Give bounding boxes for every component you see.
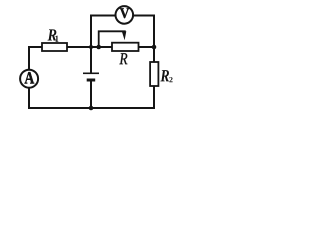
- wire: right rail vertical: [153, 47, 155, 108]
- label R2 subscript 2: [169, 77, 172, 82]
- wire: battery branch upper: [90, 47, 92, 73]
- wire: voltmeter right drop: [153, 16, 155, 48]
- wire: main horizontal row: [29, 46, 154, 48]
- battery short plate: [87, 79, 96, 82]
- rheostat R (box): [112, 43, 139, 51]
- wire: voltmeter top horizontal: [91, 15, 154, 17]
- resistor R2: [150, 62, 158, 86]
- label R1 subscript 1: [55, 36, 58, 42]
- label R1: [47, 29, 56, 40]
- rheostat slider arm: [99, 31, 125, 47]
- wire: battery branch lower: [90, 81, 92, 108]
- wire: voltmeter left drop: [90, 16, 92, 48]
- label R2: [160, 70, 169, 81]
- wire: bottom horizontal: [29, 107, 154, 109]
- resistor R1: [42, 43, 67, 51]
- node: battery bottom junction: [89, 106, 94, 111]
- battery long plate: [83, 72, 99, 74]
- node: battery/main-wire junction: [89, 45, 93, 49]
- ammeter A: [20, 70, 38, 88]
- label R (rheostat): [119, 53, 127, 64]
- node: right rail junction: [152, 45, 157, 50]
- wire: left rail vertical: [28, 47, 30, 108]
- rheostat slider arrowhead: [122, 31, 127, 40]
- node: slider tap junction: [96, 45, 101, 50]
- voltmeter V: [116, 6, 134, 24]
